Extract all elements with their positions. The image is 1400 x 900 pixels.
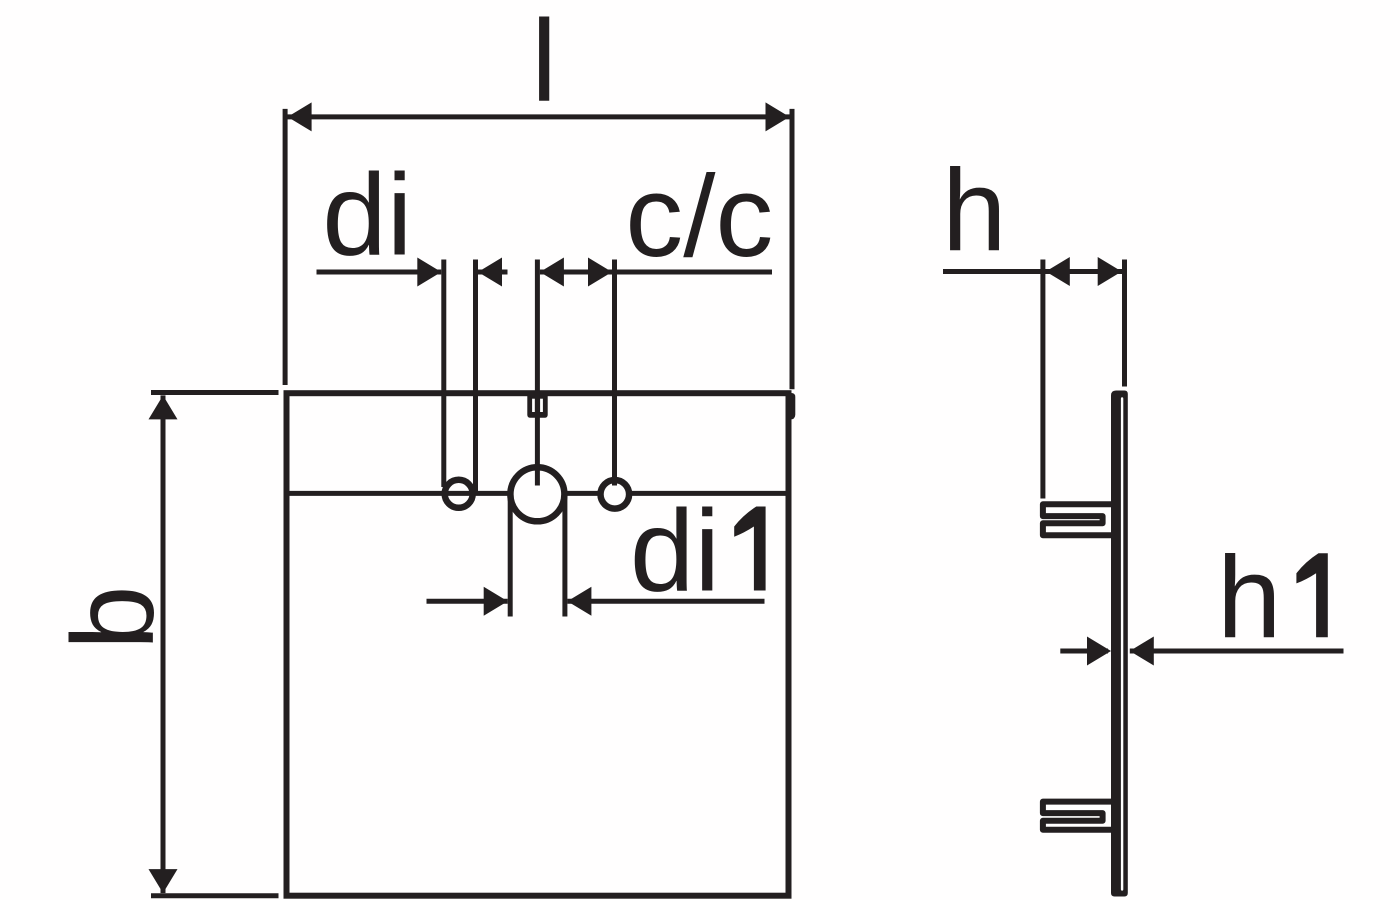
hole center (big): [510, 467, 564, 521]
side view: plate inner white line: [1121, 399, 1123, 890]
side view: plate body: [1111, 391, 1128, 897]
dimension c/c: arrowhead right: [588, 258, 612, 287]
dimension l: extension line left: [283, 109, 288, 385]
side view: spring clip upper: [1043, 504, 1112, 535]
dimension h1: left leader and arrow: [1060, 649, 1108, 654]
dimension b: dimension line: [161, 395, 166, 893]
svg-text:l: l: [531, 0, 557, 126]
dimension di1: tangent extension line left: [508, 494, 513, 616]
front view: panel outline: [287, 393, 789, 896]
dimension c/c: extension line center (to big hole): [535, 260, 540, 486]
dimension di1: right leader and arrow: [567, 599, 764, 604]
dimension l: dimension line: [285, 114, 792, 119]
svg-text:b: b: [48, 585, 178, 650]
front view: horizontal shelf line (right segment): [632, 491, 787, 496]
dimension c/c: arrowhead left: [540, 258, 564, 287]
dimension b: arrowhead bottom: [149, 869, 178, 893]
front view: top-right corner tab: [786, 393, 796, 420]
front view: horizontal shelf line (left segment, passes through left hole): [289, 491, 509, 496]
dimension di: extension line 1: [441, 260, 446, 488]
dimension b: extension tick bottom: [151, 893, 279, 898]
svg-text:di: di: [630, 486, 720, 616]
dimension c/c: extension line right (to right hole): [612, 260, 617, 486]
svg-text:h: h: [942, 145, 1007, 275]
dimension l: arrowhead left: [288, 102, 312, 131]
dimension b: extension tick top: [151, 390, 279, 395]
dimension b: arrowhead top: [149, 395, 178, 419]
dimension h: dimension line: [943, 269, 1124, 274]
dimension l: extension line right: [790, 109, 795, 389]
dimension di: extension line 2: [473, 260, 478, 493]
dimension di1: left leader and arrow: [427, 599, 508, 604]
dimension h: extension line right: [1122, 260, 1127, 387]
dimension di1: tangent extension line right: [562, 494, 567, 616]
hole right (small): [601, 480, 630, 509]
dimension di: leader left with arrow: [317, 270, 442, 275]
dimension c/c: leader right: [615, 270, 773, 275]
dimension di: right arrow and stub: [478, 270, 508, 275]
svg-text:h: h: [1217, 532, 1282, 662]
hole left (small): [445, 480, 473, 508]
svg-text:di: di: [322, 150, 412, 280]
svg-text:c/c: c/c: [625, 151, 773, 281]
dimension h: extension line left: [1040, 260, 1045, 499]
dimension h: arrowhead right: [1098, 257, 1122, 286]
dimension h1: right leader and arrow: [1130, 649, 1344, 654]
dimension l: arrowhead right: [766, 102, 790, 131]
dimension h: arrowhead left: [1046, 257, 1070, 286]
front view: top-center slotted tab: [527, 394, 547, 418]
dimension c/c: dimension line between: [540, 270, 612, 275]
side view: spring clip lower: [1043, 802, 1112, 830]
front view: horizontal shelf line (between big and right hole): [567, 491, 599, 496]
